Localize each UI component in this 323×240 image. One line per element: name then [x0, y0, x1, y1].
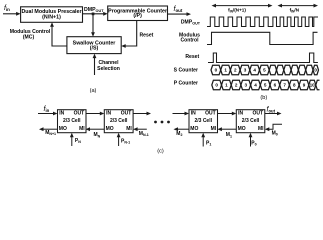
svg-text:OUT: OUT	[74, 110, 85, 116]
svg-text:4: 4	[254, 83, 257, 88]
svg-text:5: 5	[263, 68, 266, 73]
svg-text:PN: PN	[75, 138, 81, 144]
svg-text:MI: MI	[211, 126, 217, 132]
svg-text:P1: P1	[206, 140, 211, 146]
svg-text:MI: MI	[126, 126, 132, 132]
svg-text:fIN/N: fIN/N	[290, 8, 300, 14]
svg-text:0: 0	[314, 68, 317, 73]
svg-text:1: 1	[224, 68, 227, 73]
svg-text:MO: MO	[238, 126, 246, 132]
svg-text:Channel: Channel	[98, 60, 119, 66]
svg-text:8: 8	[293, 83, 296, 88]
svg-text:2/3 Cell: 2/3 Cell	[194, 118, 212, 124]
svg-text:0: 0	[215, 68, 218, 73]
svg-text:IN: IN	[238, 110, 243, 116]
svg-text:(MC): (MC)	[23, 34, 35, 40]
svg-text:2: 2	[235, 83, 238, 88]
svg-text:MN+1: MN+1	[45, 130, 56, 136]
svg-text:M0: M0	[272, 130, 278, 136]
svg-text:DMPOUT: DMPOUT	[181, 20, 201, 26]
svg-text:0: 0	[215, 83, 218, 88]
svg-text:P Counter: P Counter	[174, 80, 198, 86]
svg-text:IN: IN	[59, 110, 64, 116]
svg-text:fIN/(N+1): fIN/(N+1)	[228, 8, 246, 14]
svg-text:Selection: Selection	[97, 66, 120, 72]
svg-text:OUT: OUT	[252, 110, 263, 116]
svg-text:7: 7	[283, 83, 286, 88]
svg-text:(a): (a)	[90, 88, 97, 94]
svg-text:fin: fin	[44, 106, 50, 113]
svg-text:MO: MO	[59, 126, 67, 132]
svg-text:MI: MI	[79, 126, 85, 132]
svg-text:DMPOUT: DMPOUT	[84, 7, 104, 13]
svg-text:2/3 Cell: 2/3 Cell	[110, 118, 128, 124]
svg-text:4: 4	[253, 68, 256, 73]
svg-text:9: 9	[303, 83, 306, 88]
svg-text:(/S): (/S)	[90, 45, 99, 51]
svg-text:Reset: Reset	[140, 33, 154, 39]
svg-text:PN-1: PN-1	[121, 138, 130, 144]
svg-text:S Counter: S Counter	[174, 68, 198, 74]
svg-text:M1: M1	[226, 132, 232, 138]
svg-text:MO: MO	[190, 126, 198, 132]
svg-text:Control: Control	[180, 38, 199, 44]
svg-text:3: 3	[245, 83, 248, 88]
svg-text:(/P): (/P)	[133, 13, 142, 19]
svg-text:3: 3	[244, 68, 247, 73]
svg-text:MI: MI	[258, 126, 264, 132]
svg-text:10: 10	[310, 83, 316, 88]
svg-text:Reset: Reset	[185, 54, 199, 60]
svg-text:1: 1	[225, 83, 228, 88]
svg-text:5: 5	[264, 83, 267, 88]
svg-text:6: 6	[274, 83, 277, 88]
svg-text:IN: IN	[191, 110, 196, 116]
svg-text:(b): (b)	[260, 95, 267, 101]
svg-text:MN: MN	[94, 132, 101, 138]
svg-text:M2: M2	[176, 131, 182, 137]
svg-text:(N/N+1): (N/N+1)	[42, 15, 61, 21]
svg-text:2: 2	[234, 68, 237, 73]
svg-text:(c): (c)	[157, 149, 164, 155]
svg-text:OUT: OUT	[205, 110, 216, 116]
svg-text:2/3 Cell: 2/3 Cell	[242, 118, 260, 124]
svg-text:fout: fout	[174, 6, 183, 13]
svg-text:MN-1: MN-1	[139, 131, 149, 137]
svg-text:MO: MO	[106, 126, 114, 132]
svg-text:2/3 Cell: 2/3 Cell	[63, 118, 81, 124]
svg-text:fin: fin	[4, 5, 10, 12]
svg-text:fout: fout	[267, 107, 276, 114]
svg-text:P0: P0	[251, 140, 256, 146]
svg-text:IN: IN	[106, 110, 111, 116]
svg-text:OUT: OUT	[121, 110, 132, 116]
